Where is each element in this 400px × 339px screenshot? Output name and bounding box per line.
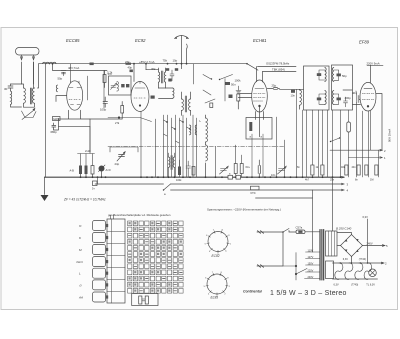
ground arrow small xyxy=(236,86,241,93)
capacitor right 5b xyxy=(365,165,368,175)
svg-text:1 5/9 W – 3 D – Stereo: 1 5/9 W – 3 D – Stereo xyxy=(270,290,347,297)
trimmer mid 1 xyxy=(220,166,229,174)
wire assembly bottom xyxy=(22,111,37,118)
svg-text:EC92: EC92 xyxy=(135,38,146,43)
wires ECH81 grid left rails xyxy=(238,94,251,98)
svg-text:220V 9mA: 220V 9mA xyxy=(367,61,380,65)
IF transformer T2 box xyxy=(332,65,353,110)
wires right column verticals xyxy=(303,103,379,178)
tube ECC85 envelope xyxy=(67,81,83,110)
coil bank left xyxy=(190,125,191,135)
switch a on rail xyxy=(164,184,171,190)
resistor right 2 xyxy=(321,165,324,175)
variable core arrow tuning xyxy=(22,110,34,120)
capacitor 100p xyxy=(103,97,108,107)
resistor on rail small xyxy=(90,63,94,66)
svg-text:25p: 25p xyxy=(272,83,277,87)
coil oscillator lower section xyxy=(206,145,208,161)
svg-text:Continental: Continental xyxy=(243,290,262,294)
svg-text:680p: 680p xyxy=(51,130,58,134)
coil L2 antenna xyxy=(24,88,26,103)
labels voltage taps xyxy=(308,249,314,278)
T2 capacitor top 50p xyxy=(337,74,341,77)
rail out 1 xyxy=(330,149,382,151)
resistor A-B 1 xyxy=(79,166,82,175)
svg-text:100p: 100p xyxy=(100,108,107,112)
wire mains lower xyxy=(263,232,283,266)
tube ECC85 internals xyxy=(69,81,81,105)
svg-text:6,3V: 6,3V xyxy=(363,215,369,219)
capacitor coupling EF89 xyxy=(356,91,359,103)
svg-text:B 250 C140: B 250 C140 xyxy=(336,226,352,230)
voltage selector pole xyxy=(283,253,307,281)
resistor right 4 xyxy=(345,165,348,175)
coil GWZ left of tube xyxy=(56,85,57,92)
svg-text:EC92: EC92 xyxy=(212,254,220,258)
tube socket diagram EC92 xyxy=(205,229,232,258)
resistor A-B 3 xyxy=(91,166,94,175)
svg-text:30k: 30k xyxy=(151,67,156,71)
wires ECH81 top xyxy=(257,67,263,83)
pins osc box xyxy=(252,134,263,177)
wire long vertical left xyxy=(45,64,47,178)
capacitor 10n EC92 xyxy=(151,96,155,99)
capacitor FM tank xyxy=(170,70,174,81)
capacitor in filter 2 xyxy=(126,84,129,87)
wires FM tank xyxy=(159,88,173,99)
box FM interstage filter xyxy=(108,72,132,95)
transformer HV secondary box xyxy=(326,231,338,256)
svg-text:24p: 24p xyxy=(115,162,120,166)
svg-text:1M: 1M xyxy=(370,179,373,182)
capacitor ECH81 grid xyxy=(229,95,233,99)
wire antenna stems down xyxy=(22,62,34,84)
svg-text:(7740): (7740) xyxy=(359,258,366,261)
wire EC92 anode up xyxy=(134,64,146,82)
resistor under ground xyxy=(237,94,240,101)
oscillator rail 2 xyxy=(263,71,297,73)
svg-text:A=0: A=0 xyxy=(106,168,111,172)
capacitor tank dark xyxy=(168,79,171,82)
svg-text:A-B: A-B xyxy=(70,169,75,173)
T2 capacitor bottom xyxy=(337,98,341,101)
rail below bus 2 xyxy=(171,189,344,191)
labels button rows xyxy=(77,224,84,300)
arrows rails right end xyxy=(342,176,345,191)
mid rail T2 to EF89 xyxy=(343,90,361,105)
svg-text:6,3V: 6,3V xyxy=(334,284,339,287)
T1 internal wires xyxy=(319,70,325,104)
coil resonant FM 2 xyxy=(164,72,165,82)
wire mains upper xyxy=(263,231,283,233)
resistor 1k vertical xyxy=(121,106,124,114)
switch contact on rail xyxy=(247,64,258,70)
T1 coil top xyxy=(325,68,326,82)
switch wafer contact matrix xyxy=(128,221,184,293)
transformer primary taps xyxy=(305,252,320,279)
wire drop to power 2 xyxy=(256,177,333,231)
resistor mid 2 xyxy=(240,164,243,174)
resistor right 5 xyxy=(357,165,360,175)
wire ECC85 grid left xyxy=(56,96,67,102)
svg-text:127V: 127V xyxy=(308,256,314,259)
svg-text:240V: 240V xyxy=(308,276,314,279)
wire bridge bottom to heater rail xyxy=(351,257,353,264)
capacitor 50n block xyxy=(225,82,230,85)
capacitor feedthrough 50p xyxy=(61,71,66,76)
heater winding curls xyxy=(335,263,372,280)
selector arm xyxy=(296,269,307,275)
component GWZ box xyxy=(53,117,61,121)
wire bank switch columns xyxy=(164,115,197,177)
svg-text:30: 30 xyxy=(4,87,8,91)
fuse boxes on bus xyxy=(228,175,233,179)
switch contacts bank xyxy=(164,120,191,143)
svg-text:EL95: EL95 xyxy=(211,296,219,300)
svg-text:6,3V: 6,3V xyxy=(343,258,348,261)
resistor right 3 xyxy=(347,122,351,132)
trimmer arrow tuning cap 1 xyxy=(117,152,125,161)
pot volume dark xyxy=(99,166,105,172)
main ground bus xyxy=(45,176,345,178)
wire EF89 anode top xyxy=(370,65,372,83)
svg-text:27k: 27k xyxy=(115,121,120,125)
svg-text:40n: 40n xyxy=(352,166,357,169)
capacitor antenna input trimmer xyxy=(4,84,13,91)
tube EF89 internals xyxy=(362,89,374,108)
resistor right 6 xyxy=(375,165,378,175)
wires tube ECC85 cathode xyxy=(59,110,123,119)
switch right mid xyxy=(331,138,340,142)
capacitor mid electrolytic xyxy=(258,160,260,177)
box tuning cap section xyxy=(110,147,138,152)
junction dots heater rail xyxy=(340,262,369,264)
top rail bus xyxy=(39,63,248,65)
coil L1 antenna xyxy=(11,91,12,105)
antenna AM dipole symbol xyxy=(16,48,40,61)
svg-text:AA: AA xyxy=(78,296,83,300)
svg-text:10n: 10n xyxy=(291,94,296,98)
wires ECH81 bottom pins xyxy=(256,107,264,137)
tube EC92 internals xyxy=(134,82,146,107)
switch mains xyxy=(283,229,289,233)
svg-text:150V: 150V xyxy=(308,262,314,265)
svg-text:ECC85: ECC85 xyxy=(66,38,80,43)
tube ECH81 internals xyxy=(254,89,266,107)
mid rail from 25p xyxy=(280,88,304,90)
dial lamp xyxy=(369,269,377,277)
svg-text:10p: 10p xyxy=(173,59,178,63)
wire verticals mid xyxy=(141,89,297,177)
svg-text:ECH81: ECH81 xyxy=(253,38,267,43)
resistor NTC on rail xyxy=(251,186,260,190)
T1 capacitor top xyxy=(317,73,321,76)
svg-text:10n: 10n xyxy=(271,173,276,177)
svg-text:48V,7mA: 48V,7mA xyxy=(68,66,79,70)
transformer core xyxy=(320,230,324,281)
wire bridge output xyxy=(363,245,385,247)
svg-text:90V 19mA: 90V 19mA xyxy=(388,129,392,142)
component 10n at ECH81 right xyxy=(291,90,295,93)
wire drop to power 1 xyxy=(312,190,314,252)
wire to top rail xyxy=(38,64,39,88)
tube ECH81 envelope xyxy=(252,80,268,112)
wire oscillator drop xyxy=(224,79,226,102)
svg-text:TL 6,3V: TL 6,3V xyxy=(366,284,375,287)
wire EC92 grid return xyxy=(108,118,152,122)
transformer LV secondary box xyxy=(326,261,334,279)
coil resonant FM 3 xyxy=(173,88,174,98)
push buttons band selector xyxy=(93,221,109,303)
mains plug prong 2 xyxy=(257,265,264,268)
dash-dot tuning gang line xyxy=(108,146,285,148)
FM antenna dipole symbol xyxy=(175,36,189,65)
junction dots on bus xyxy=(80,176,342,178)
svg-text:2x10: 2x10 xyxy=(85,149,91,153)
rail B 48V xyxy=(53,64,108,71)
mains plug prong 1 xyxy=(257,231,264,234)
coil oscillator tall xyxy=(206,118,208,142)
svg-text:75k: 75k xyxy=(163,59,168,63)
heater rail xyxy=(333,262,384,264)
wire coil cluster feed xyxy=(146,69,159,71)
T1 capacitor bottom xyxy=(317,98,321,101)
resistor cluster left xyxy=(78,126,95,165)
resistor A-B 2 xyxy=(85,166,88,175)
wire EF89 grid xyxy=(359,94,382,151)
resistor right 1 xyxy=(311,165,314,175)
svg-text:Spannungsmessen: ~220V (Klemme: Spannungsmessen: ~220V (Klemmenwerte der… xyxy=(207,208,281,212)
box oscillator shield xyxy=(246,118,272,140)
coil EC92 out2 xyxy=(189,99,191,110)
trimmer in filter xyxy=(111,83,117,90)
svg-text:TBK (854): TBK (854) xyxy=(272,68,285,72)
junction dots rail xyxy=(52,63,188,65)
labels heater xyxy=(334,258,376,287)
svg-text:3,7k: 3,7k xyxy=(107,71,113,75)
svg-text:63+: 63+ xyxy=(246,165,251,169)
tube EC92 envelope xyxy=(131,82,149,112)
svg-text:NTC: NTC xyxy=(251,192,256,195)
resistor mid 1 xyxy=(234,164,237,174)
resistor mid 4 xyxy=(192,167,195,176)
bridge rectifier B250C140 xyxy=(341,235,363,257)
coil IF primary left xyxy=(300,90,302,105)
trimmer mid 2 xyxy=(278,166,287,174)
transformer core bars xyxy=(31,88,32,104)
switch plate lamp holder box xyxy=(132,294,158,306)
resistor mid 3 xyxy=(178,167,181,176)
coil in filter xyxy=(117,82,119,92)
oscillator rail 1 xyxy=(258,66,297,68)
switch plate connector strip xyxy=(107,215,125,303)
resistor inside osc box xyxy=(249,122,252,131)
wire rail B drop xyxy=(88,71,105,109)
ZF transformer mid xyxy=(169,157,170,168)
svg-text:C57a: C57a xyxy=(296,226,303,230)
svg-text:50p: 50p xyxy=(342,74,347,78)
coil L3 xyxy=(33,88,35,103)
rail below bus 1 xyxy=(95,183,343,185)
T2 coil bottom xyxy=(332,91,333,105)
svg-text:EF89: EF89 xyxy=(359,40,370,45)
svg-text:50p: 50p xyxy=(58,77,63,81)
capacitor 680p xyxy=(52,123,56,129)
wire xyxy=(11,84,22,107)
coil resonant FM 1 xyxy=(159,72,160,82)
coil L4 on rail xyxy=(43,62,57,63)
wire discriminator feed xyxy=(193,64,195,84)
wire secondary to bridge xyxy=(337,233,352,246)
wire to transformer primary xyxy=(305,231,320,233)
IF transformer T1 box xyxy=(304,66,330,110)
svg-text:50n: 50n xyxy=(231,83,236,87)
svg-text:ZF = 43 csT2/kHz = 10,7MHz: ZF = 43 csT2/kHz = 10,7MHz xyxy=(63,198,106,202)
switch contacts ECH81 input xyxy=(203,90,215,103)
wire rail to ECC85 anode xyxy=(70,64,72,82)
wire drop mid xyxy=(215,147,217,178)
EC92 right coils xyxy=(181,64,183,69)
svg-text:220V: 220V xyxy=(308,269,314,272)
svg-text:110V: 110V xyxy=(308,249,314,252)
switch AM-FM contacts xyxy=(203,75,233,80)
svg-text:(7740): (7740) xyxy=(351,284,358,287)
tube EF89 envelope xyxy=(360,82,376,111)
tube socket diagram EL95 xyxy=(204,272,231,300)
T2 coil top xyxy=(332,68,333,82)
heater bottom rail xyxy=(333,278,378,280)
svg-text:40n: 40n xyxy=(352,91,357,95)
svg-text:Ferrit: Ferrit xyxy=(77,260,83,264)
box 5+ below bus xyxy=(93,181,98,186)
coil bank right xyxy=(195,125,196,135)
T2 internal wires xyxy=(334,70,339,104)
ground symbol main xyxy=(44,177,46,194)
capacitor mid small pair xyxy=(186,161,191,177)
svg-text:ges.Bereichsschalterplatte v.d: ges.Bereichsschalterplatte v.d. Rückseit… xyxy=(108,213,171,217)
svg-text:OSZ/ZFM 78,5kHz: OSZ/ZFM 78,5kHz xyxy=(266,62,290,66)
rail out 2 xyxy=(349,157,383,159)
capacitor in filter 1 xyxy=(121,84,124,87)
svg-text:100k: 100k xyxy=(176,179,182,182)
svg-text:40p: 40p xyxy=(128,66,133,70)
junction dots tank feed xyxy=(167,63,169,65)
transformer core FM1 xyxy=(162,71,163,83)
T1 coil bottom xyxy=(325,91,326,105)
svg-text:4k7: 4k7 xyxy=(305,179,310,182)
